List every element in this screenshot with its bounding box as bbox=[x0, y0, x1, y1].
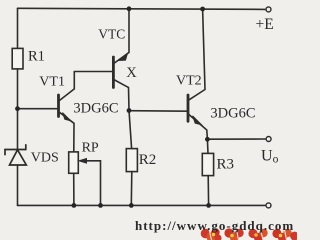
svg-text:3DG6C: 3DG6C bbox=[210, 105, 255, 121]
potentiometer RP body bbox=[69, 152, 79, 173]
transistor VTC emitter arrow (PNP, points to bar) bbox=[118, 53, 128, 60]
node dot VTC collector junction bbox=[127, 108, 132, 113]
terminal +E bbox=[266, 7, 271, 12]
wire RP bottom bbox=[73, 173, 75, 205]
wire RP wiper bbox=[81, 161, 101, 206]
wire R1 bottom to zener bbox=[17, 69, 19, 149]
transistor VT2 collector lead bbox=[188, 9, 205, 100]
zener diode VDS bbox=[5, 145, 26, 165]
wire node to R3 bbox=[206, 139, 209, 153]
node dot VT2 emitter junction bbox=[205, 137, 210, 142]
wire VT1 base bbox=[18, 108, 58, 110]
node dot VT1 base junction bbox=[15, 106, 20, 111]
transistor VTC collector lead bbox=[114, 80, 129, 111]
wire top supply rail bbox=[18, 8, 266, 9]
svg-text:3DG6C: 3DG6C bbox=[73, 100, 118, 116]
svg-text:VDS: VDS bbox=[31, 150, 59, 165]
transistor VT1 emitter arrow bbox=[63, 113, 71, 121]
wire R3 bottom bbox=[207, 176, 209, 206]
resistor R1 bbox=[12, 48, 23, 69]
wire left branch R1 top bbox=[17, 8, 19, 48]
resistor R3 bbox=[202, 153, 213, 175]
resistor R2 bbox=[126, 149, 137, 172]
svg-text:VT1: VT1 bbox=[39, 75, 65, 90]
wire R2 bottom bbox=[130, 172, 133, 206]
svg-text:R1: R1 bbox=[28, 49, 45, 65]
node dot rail R3 bbox=[206, 203, 211, 208]
wire VTC base bbox=[74, 71, 112, 73]
transistor VTC base bar bbox=[112, 57, 115, 88]
svg-text:RP: RP bbox=[82, 141, 99, 156]
wire VTC collector to R2 bbox=[129, 111, 132, 149]
svg-text:http://www.go-gddq.com: http://www.go-gddq.com bbox=[135, 218, 294, 233]
transistor VT2 base bar bbox=[187, 95, 190, 121]
wire emitter node to Uo terminal bbox=[207, 138, 266, 140]
svg-text:VTC: VTC bbox=[98, 27, 125, 42]
watermark logo red glyphs bbox=[201, 228, 299, 240]
node dot top rail VT2 bbox=[200, 7, 205, 12]
wire VDS to bottom rail bbox=[17, 165, 19, 205]
svg-text:R3: R3 bbox=[217, 156, 235, 172]
transistor VTC emitter lead bbox=[114, 9, 129, 64]
transistor VT1 collector lead bbox=[59, 72, 75, 102]
terminal Uo bbox=[266, 137, 271, 142]
node dot rail RP bbox=[72, 203, 77, 208]
svg-text:X: X bbox=[126, 65, 137, 81]
svg-text:VT2: VT2 bbox=[176, 74, 202, 89]
node dot rail R2 bbox=[129, 203, 134, 208]
transistor VT2 emitter lead bbox=[188, 114, 207, 139]
wire bottom rail bbox=[18, 204, 266, 206]
node dot rail wiper bbox=[98, 203, 103, 208]
transistor VT1 emitter lead bbox=[59, 112, 74, 152]
transistor VT1 base bar bbox=[57, 95, 60, 117]
svg-text:R2: R2 bbox=[139, 152, 157, 168]
node dot top rail VTC bbox=[127, 6, 132, 11]
wire VT2 base bbox=[129, 110, 187, 113]
transistor VT2 emitter arrow bbox=[193, 116, 202, 125]
terminal bottom right bbox=[266, 203, 271, 208]
svg-text:+E: +E bbox=[256, 16, 274, 33]
RP wiper arrow bbox=[79, 159, 87, 164]
